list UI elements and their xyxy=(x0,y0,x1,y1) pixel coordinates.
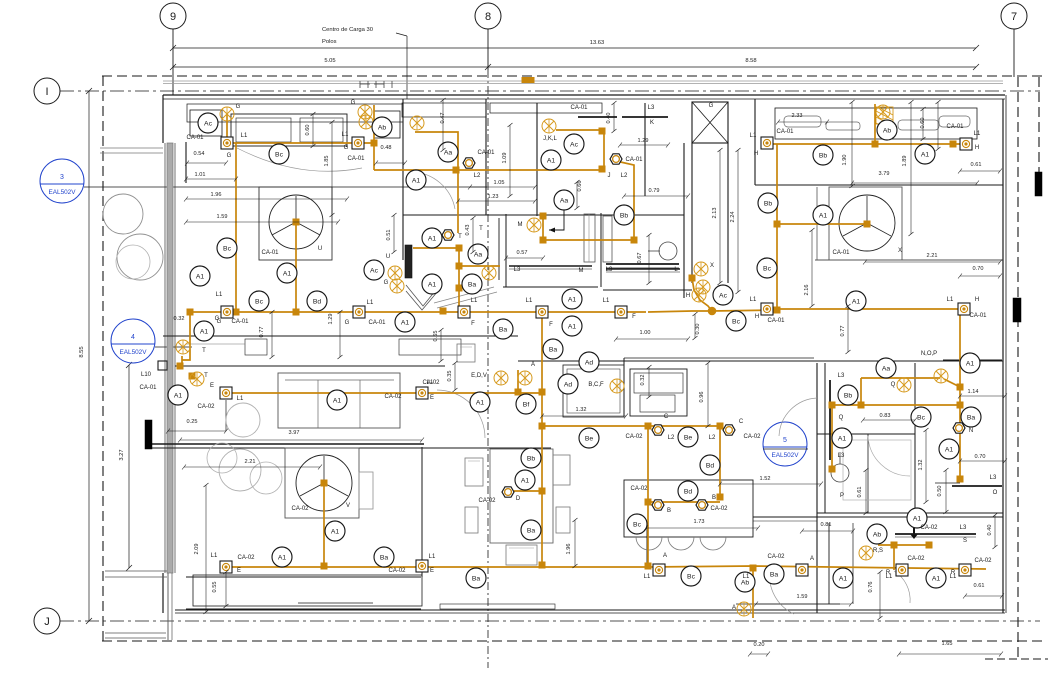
svg-text:A1: A1 xyxy=(476,399,485,406)
chair 1 xyxy=(465,458,483,486)
svg-text:8.58: 8.58 xyxy=(745,58,756,64)
svg-text:Ba: Ba xyxy=(967,414,976,421)
dim line 10 xyxy=(852,182,977,184)
svg-text:Ac: Ac xyxy=(719,292,728,299)
svg-text:Bc: Bc xyxy=(223,245,232,252)
svg-text:B: B xyxy=(667,508,671,514)
wall terrace xyxy=(186,576,421,578)
kitchen counter xyxy=(630,369,687,416)
dim line 58 xyxy=(945,470,947,512)
dim line 3 xyxy=(186,198,347,200)
wall SE a xyxy=(828,523,830,604)
svg-text:Bc: Bc xyxy=(255,298,264,305)
svg-text:CA-02: CA-02 xyxy=(907,556,925,562)
svg-text:Ba: Ba xyxy=(472,575,481,582)
svg-text:A1: A1 xyxy=(278,554,287,561)
svg-text:G: G xyxy=(236,104,241,110)
tag Bc (921,417) xyxy=(911,407,931,427)
junction J22 xyxy=(515,389,521,395)
chair 4 xyxy=(556,507,570,533)
tag Ac (723,295) xyxy=(713,285,733,305)
junction J30 xyxy=(321,563,327,569)
wire bed1 fan drop xyxy=(295,222,297,312)
wire bed2 bottom xyxy=(767,308,964,310)
wall bench bottom xyxy=(186,608,421,610)
svg-text:CA-01: CA-01 xyxy=(477,150,495,156)
svg-text:A1: A1 xyxy=(521,477,530,484)
closet top bed2 xyxy=(775,108,977,139)
wall x684 xyxy=(683,143,685,298)
junction J42 xyxy=(864,221,870,227)
svg-text:0.20: 0.20 xyxy=(754,642,765,648)
tag A1 (416,180) xyxy=(406,170,426,190)
svg-text:L2: L2 xyxy=(474,173,481,179)
svg-text:0.50: 0.50 xyxy=(937,486,943,497)
property line top xyxy=(102,75,1043,77)
wall corridor left xyxy=(691,143,693,283)
svg-text:C: C xyxy=(664,414,669,420)
stair shaft box xyxy=(692,102,728,143)
svg-text:Ac: Ac xyxy=(370,267,379,274)
bench terrace xyxy=(193,575,422,606)
fan K xyxy=(542,119,556,133)
wire bed1 right drop xyxy=(373,105,375,170)
hex B2 xyxy=(696,500,708,510)
junction J21 xyxy=(539,389,545,395)
junction J26 xyxy=(717,494,723,500)
svg-text:0.57: 0.57 xyxy=(517,250,528,256)
dim line 9 xyxy=(778,121,827,123)
fan A btm xyxy=(737,602,751,616)
svg-text:2.21: 2.21 xyxy=(927,253,938,259)
dim line 11 xyxy=(960,170,1000,172)
tag Bb (768,203) xyxy=(758,193,778,213)
svg-text:Bc: Bc xyxy=(732,318,741,325)
tag A1 (856,301) xyxy=(846,291,866,311)
svg-text:L3: L3 xyxy=(606,267,613,273)
switch leader Aa xyxy=(549,210,564,230)
shower L door xyxy=(603,216,612,262)
tag Ba (531,530) xyxy=(521,520,541,540)
svg-text:A1: A1 xyxy=(200,328,209,335)
dim line 17 xyxy=(542,415,626,417)
svg-text:0.51: 0.51 xyxy=(386,230,392,241)
svg-text:0.40: 0.40 xyxy=(606,113,612,124)
svg-text:CA-02: CA-02 xyxy=(767,554,785,560)
svg-text:CA-01: CA-01 xyxy=(625,157,643,163)
svg-text:CA-01: CA-01 xyxy=(946,124,964,130)
wire bed1 left drop xyxy=(226,114,228,143)
svg-text:A1: A1 xyxy=(547,157,556,164)
outlet A2 xyxy=(653,564,665,576)
property line bottom xyxy=(102,640,1043,642)
dim line 56 xyxy=(225,572,227,606)
svg-text:Ac: Ac xyxy=(570,141,579,148)
wire E riser xyxy=(541,312,543,566)
wall JKL x537 xyxy=(536,103,538,216)
svg-text:L1: L1 xyxy=(603,298,610,304)
svg-text:1.89: 1.89 xyxy=(902,156,908,167)
svg-text:Ba: Ba xyxy=(380,554,389,561)
door arc bottom xyxy=(770,570,794,614)
svg-text:CA-01: CA-01 xyxy=(767,318,785,324)
wall bath M bottom xyxy=(503,286,598,288)
grid line 9 xyxy=(172,29,174,95)
wall y447 xyxy=(151,447,551,449)
tag Ba (774,574) xyxy=(764,564,784,584)
wall bath K right xyxy=(644,103,646,196)
outlet E4 xyxy=(416,560,428,572)
tag A1 (970,363) xyxy=(960,353,980,373)
svg-text:3: 3 xyxy=(60,174,64,181)
svg-text:E,D,V: E,D,V xyxy=(471,373,487,379)
svg-text:CA-02: CA-02 xyxy=(384,394,402,400)
chair 2 xyxy=(465,507,478,533)
svg-text:L1: L1 xyxy=(947,297,954,303)
svg-text:Aa: Aa xyxy=(560,197,569,204)
chair 3 xyxy=(553,455,570,485)
outlet H4 xyxy=(958,303,970,315)
svg-text:M: M xyxy=(518,222,523,228)
tag Ad (589,362) xyxy=(579,352,599,372)
svg-text:H: H xyxy=(686,293,690,299)
tag A1 (551,160) xyxy=(541,150,561,170)
junction J9 xyxy=(456,263,462,269)
dim line 8 xyxy=(620,144,668,146)
svg-text:E: E xyxy=(237,568,241,574)
door arc bath xyxy=(779,398,817,436)
niche Ab xyxy=(374,111,400,138)
outlet F1 xyxy=(458,306,470,318)
armchair xyxy=(226,403,260,437)
junction J1 xyxy=(233,309,239,315)
bar stools xyxy=(636,537,726,550)
svg-text:Ba: Ba xyxy=(468,281,477,288)
svg-text:0.32: 0.32 xyxy=(640,375,646,386)
hex L2b xyxy=(723,425,735,435)
svg-text:Ab: Ab xyxy=(741,579,750,586)
bath L counter xyxy=(606,268,680,270)
junction J6 xyxy=(187,309,193,315)
glazed facade left xyxy=(167,143,173,573)
tag Ac (574,144) xyxy=(564,134,584,154)
fan T1 xyxy=(176,340,190,354)
tag A1 (432,238) xyxy=(422,228,442,248)
svg-text:A1: A1 xyxy=(568,323,577,330)
tag A1 (572,299) xyxy=(562,289,582,309)
wire terrace drop xyxy=(752,566,754,618)
wall bed2 y262 xyxy=(815,259,1003,261)
junction J46 xyxy=(189,373,195,379)
svg-text:S: S xyxy=(963,538,967,544)
wire bath M row xyxy=(543,239,634,241)
svg-text:Q: Q xyxy=(891,382,896,388)
svg-text:CA-01: CA-01 xyxy=(139,385,157,391)
dim line 22 xyxy=(863,419,915,421)
svg-text:L1: L1 xyxy=(342,132,349,138)
dim line 61 xyxy=(879,572,881,618)
svg-text:CA-02: CA-02 xyxy=(710,506,728,512)
bath L2 counter xyxy=(606,263,679,265)
svg-text:R: R xyxy=(886,570,891,576)
svg-text:9: 9 xyxy=(170,11,176,23)
svg-text:0.61: 0.61 xyxy=(857,487,863,498)
wall y513 xyxy=(817,512,1003,514)
grid line I xyxy=(60,90,1040,92)
dim line 37 xyxy=(910,102,912,234)
tag A1 (204,331) xyxy=(194,321,214,341)
tag Ba (503,329) xyxy=(493,319,513,339)
dim line 1 xyxy=(376,162,405,164)
svg-text:1.85: 1.85 xyxy=(324,156,330,167)
grid bubble I xyxy=(34,78,60,104)
svg-text:Bb: Bb xyxy=(844,392,853,399)
svg-text:Bc: Bc xyxy=(763,265,772,272)
svg-text:0.48: 0.48 xyxy=(381,145,392,151)
tag Bb (823,155) xyxy=(813,145,833,165)
svg-text:L1: L1 xyxy=(211,553,218,559)
svg-text:1.23: 1.23 xyxy=(488,194,499,200)
junction J35 xyxy=(926,542,932,548)
kitchen cabinet BCF xyxy=(563,365,624,417)
svg-text:X: X xyxy=(898,248,902,254)
svg-text:K: K xyxy=(650,120,654,126)
svg-text:L1: L1 xyxy=(974,131,981,137)
fan X xyxy=(694,262,708,276)
svg-text:A1: A1 xyxy=(428,235,437,242)
svg-text:1.65: 1.65 xyxy=(942,641,953,647)
svg-text:A1: A1 xyxy=(913,515,922,522)
svg-text:A1: A1 xyxy=(852,298,861,305)
tag Bb (624,215) xyxy=(614,205,634,225)
svg-text:H: H xyxy=(755,314,759,320)
wire bathN Q drop xyxy=(860,378,862,405)
exterior wall right xyxy=(1002,99,1004,613)
junction J36 xyxy=(957,384,963,390)
svg-text:L3: L3 xyxy=(960,525,967,531)
dim line 38 xyxy=(937,102,939,149)
dim line 31 xyxy=(331,122,333,215)
junction J39 xyxy=(957,476,963,482)
svg-text:0.81: 0.81 xyxy=(821,522,832,528)
outlet H2 xyxy=(960,138,972,150)
svg-text:L1: L1 xyxy=(743,574,750,580)
entry wall stub xyxy=(185,142,187,183)
bed 2 frame xyxy=(829,187,902,260)
svg-text:Ac: Ac xyxy=(204,120,213,127)
tag Bd (317,301) xyxy=(307,291,327,311)
svg-text:T: T xyxy=(202,348,206,354)
svg-text:CA-02: CA-02 xyxy=(920,525,938,531)
svg-text:0.70: 0.70 xyxy=(973,266,984,272)
dim line 47 xyxy=(694,314,696,338)
tag Bd (688,491) xyxy=(678,481,698,501)
feeder circle 4 xyxy=(111,319,155,363)
svg-text:F: F xyxy=(632,314,636,320)
closet cabinet bed1 xyxy=(231,114,347,146)
wire closet S xyxy=(878,544,930,546)
dim line 34 xyxy=(613,103,615,131)
grid line 8 xyxy=(487,29,489,70)
hex J1 xyxy=(610,154,622,164)
svg-text:A1: A1 xyxy=(196,273,205,280)
hatched cabinet H xyxy=(876,107,893,124)
tag A1 (405,322) xyxy=(395,312,415,332)
svg-text:J,K,L: J,K,L xyxy=(543,136,557,142)
property line right b xyxy=(1038,77,1040,195)
tag Ab (382,127) xyxy=(372,117,392,137)
junction J13 xyxy=(774,307,780,313)
svg-text:Ba: Ba xyxy=(770,571,779,578)
svg-text:5: 5 xyxy=(783,437,787,444)
dim line 42 xyxy=(719,150,721,283)
junction J17 xyxy=(631,237,637,243)
tag A1 (282,557) xyxy=(272,547,292,567)
top shelf K xyxy=(578,116,617,118)
dim line 2 xyxy=(186,178,236,180)
tag Ab (745,582) xyxy=(735,572,755,592)
wire bottom R row xyxy=(648,566,986,569)
wall aa right xyxy=(498,218,500,280)
dim line 50 xyxy=(440,330,442,361)
aa door diag xyxy=(437,292,497,308)
junction J32 xyxy=(539,488,545,494)
wire aa branch xyxy=(413,247,459,249)
svg-text:1.96: 1.96 xyxy=(566,544,572,555)
svg-text:1.14: 1.14 xyxy=(968,389,979,395)
svg-text:Aa: Aa xyxy=(444,149,453,156)
dim line 55 xyxy=(205,485,207,612)
tag Aa (886,368) xyxy=(876,358,896,378)
svg-text:C: C xyxy=(739,419,744,425)
wire hall drop1 xyxy=(457,170,459,233)
wire hall top xyxy=(374,169,604,171)
closet K band xyxy=(490,103,602,113)
dim line 29 xyxy=(506,257,543,259)
sofa xyxy=(278,373,400,428)
dim line 23 xyxy=(960,460,1005,462)
svg-text:Ba: Ba xyxy=(527,527,536,534)
grid bubble J xyxy=(34,608,60,634)
dim line 35 xyxy=(922,109,924,139)
tag Ad (568,384) xyxy=(558,374,578,394)
junction J45 xyxy=(950,141,956,147)
svg-text:Ad: Ad xyxy=(564,381,573,388)
junction J7 xyxy=(440,308,446,314)
outlet F2 xyxy=(536,306,548,318)
svg-text:Aa: Aa xyxy=(882,365,891,372)
dim line 26 xyxy=(965,595,1002,597)
black door marker xyxy=(145,420,152,449)
tag A1 (823,215) xyxy=(813,205,833,225)
wall bed2 y185 xyxy=(755,184,1003,186)
junction J37 xyxy=(957,402,963,408)
ceiling fan dining xyxy=(296,455,352,511)
tag Bd (710,465) xyxy=(700,455,720,475)
svg-text:CA-01: CA-01 xyxy=(186,135,204,141)
dim line 0 xyxy=(187,162,226,164)
svg-text:0.77: 0.77 xyxy=(259,327,265,338)
dim 5.05 xyxy=(173,66,488,68)
svg-text:2.13: 2.13 xyxy=(712,208,718,219)
exterior wall top xyxy=(163,94,1005,96)
dim line 15 xyxy=(180,439,422,441)
tag A1 (936,578) xyxy=(926,568,946,588)
wire T2 down xyxy=(458,248,460,313)
wall hall JKL left xyxy=(485,99,487,215)
dim line 36 xyxy=(851,102,853,186)
tag A1 (178,395) xyxy=(168,385,188,405)
svg-text:G: G xyxy=(384,280,389,286)
dim line 40 xyxy=(472,218,474,252)
tag Be (589,438) xyxy=(579,428,599,448)
svg-text:2.33: 2.33 xyxy=(792,113,803,119)
eave line xyxy=(163,80,1003,82)
svg-text:L3: L3 xyxy=(990,475,997,481)
feeder circle 5 xyxy=(763,422,807,466)
svg-text:5.05: 5.05 xyxy=(324,58,335,64)
svg-text:0.43: 0.43 xyxy=(465,225,471,236)
wall y521 xyxy=(753,520,817,522)
junction J16 xyxy=(599,128,605,134)
svg-text:A: A xyxy=(663,553,667,559)
wall bath L bottom xyxy=(603,289,692,291)
tag Bc (691,576) xyxy=(681,566,701,586)
dim line 60 xyxy=(994,515,996,547)
junction J19 xyxy=(540,213,546,219)
svg-text:2.16: 2.16 xyxy=(804,285,810,296)
svg-text:A1: A1 xyxy=(401,319,410,326)
svg-text:F: F xyxy=(471,321,475,327)
wall y444 xyxy=(151,443,424,445)
svg-text:L1: L1 xyxy=(237,396,244,402)
hex L2a xyxy=(652,425,664,435)
svg-text:0.65: 0.65 xyxy=(433,331,439,342)
svg-text:2.21: 2.21 xyxy=(245,459,256,465)
witness E1 xyxy=(225,400,227,431)
wire cabinet H drop xyxy=(874,104,876,144)
svg-text:0.54: 0.54 xyxy=(194,151,205,157)
fan BCF xyxy=(610,379,624,393)
outlet G4 xyxy=(353,306,365,318)
dim line 14 xyxy=(168,430,226,432)
tag A1 (200,276) xyxy=(190,266,210,286)
tag A1 (337,400) xyxy=(327,390,347,410)
svg-text:L1: L1 xyxy=(216,292,223,298)
fan G top2b xyxy=(359,115,373,129)
kitchen island xyxy=(624,480,753,537)
tag A1 (572,326) xyxy=(562,316,582,336)
wire panel T2 xyxy=(181,356,183,364)
tag A1 (949,449) xyxy=(939,439,959,459)
junction J40 xyxy=(829,402,835,408)
svg-text:0.77: 0.77 xyxy=(840,326,846,337)
dim line 32 xyxy=(442,100,444,150)
dim line 20 xyxy=(616,338,688,340)
outlet E3 xyxy=(220,561,232,573)
closet top hall xyxy=(402,103,486,117)
table group xyxy=(490,449,553,543)
fan T2 xyxy=(190,372,204,386)
svg-text:2.09: 2.09 xyxy=(194,544,200,555)
dim line 48 xyxy=(271,312,273,357)
tag Aa (448,152) xyxy=(438,142,458,162)
svg-text:L1: L1 xyxy=(427,380,434,386)
dim line 57 xyxy=(925,430,927,502)
tag Ac (208,123) xyxy=(198,113,218,133)
closet shelf bed1 xyxy=(187,104,403,122)
svg-text:1.96: 1.96 xyxy=(211,192,222,198)
